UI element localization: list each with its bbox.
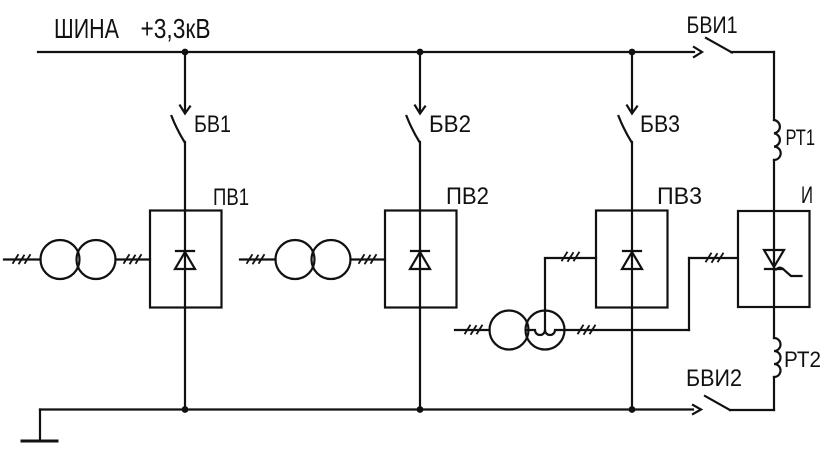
svg-text:+3,3кВ: +3,3кВ — [141, 13, 211, 44]
svg-text:ПВ2: ПВ2 — [446, 183, 489, 210]
svg-text:РТ2: РТ2 — [784, 347, 821, 372]
svg-text:БВИ2: БВИ2 — [686, 365, 742, 392]
svg-text:РТ1: РТ1 — [786, 125, 816, 150]
svg-text:БВ2: БВ2 — [429, 111, 471, 138]
svg-text:И: И — [801, 182, 813, 209]
svg-text:БВ1: БВ1 — [194, 111, 231, 138]
svg-text:ПВ1: ПВ1 — [213, 184, 249, 211]
svg-text:ПВ3: ПВ3 — [657, 183, 702, 210]
svg-text:БВ3: БВ3 — [640, 111, 680, 138]
svg-text:ШИНА: ШИНА — [54, 13, 119, 44]
svg-text:БВИ1: БВИ1 — [687, 12, 738, 39]
